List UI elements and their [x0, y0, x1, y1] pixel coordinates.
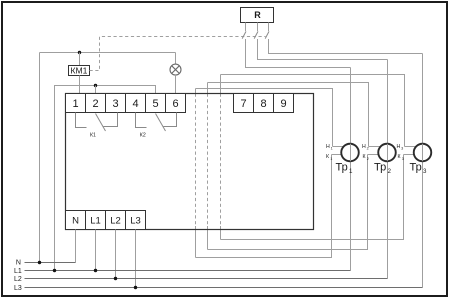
- wire W1: R pole 3 to CT3 primary: [269, 39, 423, 54]
- wire: H3 stub: [405, 146, 418, 148]
- wire: CT1 primary riser to L1 bus: [350, 68, 352, 271]
- wire: K2 stub: [368, 154, 382, 156]
- wire: return to CT1 K1: [196, 155, 332, 258]
- R pole 3 upper lead: [268, 23, 270, 32]
- bus L3: [25, 287, 423, 289]
- terminal block N L1 L2 L3: [66, 211, 146, 230]
- wire: KM1 top lead: [79, 53, 81, 66]
- svg-text:Н: Н: [397, 144, 401, 150]
- node: L3 terminal junction: [134, 286, 137, 289]
- wire: CT2 primary riser to L2 bus: [387, 60, 389, 279]
- svg-text:К: К: [398, 154, 401, 160]
- R pole 1 contact blade: [242, 31, 246, 38]
- svg-text:L2: L2: [14, 276, 22, 283]
- lamp HL: [170, 64, 181, 75]
- svg-text:N: N: [16, 260, 21, 267]
- meter enclosure: [66, 94, 314, 230]
- svg-text:1: 1: [331, 147, 333, 151]
- svg-text:3: 3: [112, 98, 118, 110]
- node: N riser junction: [38, 261, 41, 264]
- bus L1: [25, 270, 351, 272]
- svg-text:1: 1: [349, 168, 353, 175]
- svg-text:8: 8: [260, 98, 266, 110]
- current transformer Tp2: [362, 144, 396, 175]
- svg-text:L3: L3: [130, 216, 141, 227]
- svg-text:5: 5: [152, 98, 158, 110]
- wire: drop to terminal 2: [95, 86, 97, 94]
- node: KM1 tap junction: [78, 51, 81, 54]
- R pole 3 contact blade: [265, 31, 269, 38]
- wire: KM1 bottom lead to terminal 1: [79, 76, 81, 94]
- node: L1 riser junction: [53, 269, 56, 272]
- wire: return to CT3 K3: [221, 155, 404, 240]
- wire: terminal L3 drop: [135, 230, 137, 288]
- jumper K2: [136, 113, 177, 139]
- svg-text:Тр: Тр: [374, 162, 386, 174]
- svg-text:R: R: [254, 10, 261, 20]
- svg-text:Тр: Тр: [410, 162, 422, 174]
- wire: riser from N bus to control bus x=39.5: [39, 53, 41, 263]
- svg-text:9: 9: [280, 98, 286, 110]
- node: L2 terminal junction: [114, 277, 117, 280]
- wire: K3 stub: [404, 154, 418, 156]
- bus L2: [25, 278, 388, 280]
- svg-text:L2: L2: [110, 216, 121, 227]
- svg-text:К: К: [363, 154, 366, 160]
- svg-text:К: К: [326, 154, 329, 160]
- wire W5: meter internal lead 2 to CT2 H2: [208, 83, 369, 147]
- R pole 2 contact blade: [254, 31, 258, 38]
- svg-text:2: 2: [367, 157, 369, 161]
- wire: dashed meter internal path 3: [220, 75, 222, 240]
- wire: control bus y=52.5 from riser to lamp: [40, 52, 176, 54]
- svg-text:К2: К2: [140, 133, 146, 139]
- svg-text:4: 4: [132, 98, 138, 110]
- svg-text:1: 1: [330, 157, 332, 161]
- wire: K1 stub: [332, 154, 345, 156]
- wire W4: meter internal lead 3 to CT3 H3: [221, 75, 405, 147]
- wire: return to CT2 K2: [208, 155, 368, 250]
- wire: terminal N drop: [75, 230, 77, 263]
- R pole 1 upper lead: [245, 23, 247, 32]
- svg-text:1: 1: [72, 98, 78, 110]
- svg-text:Тр: Тр: [336, 162, 348, 174]
- wire: lamp HL bottom lead to terminal 6: [175, 75, 177, 94]
- bus N: [25, 262, 76, 264]
- terminal block 7-9: [234, 94, 294, 113]
- svg-text:7: 7: [240, 98, 246, 110]
- current transformer Tp3: [397, 144, 432, 175]
- wire W3: R pole 1 to CT1 primary: [246, 39, 351, 68]
- svg-text:КМ1: КМ1: [71, 66, 88, 76]
- wire: dashed meter internal path 1: [195, 89, 197, 258]
- svg-text:3: 3: [423, 168, 427, 175]
- current transformer Tp1: [326, 144, 359, 175]
- svg-text:2: 2: [367, 147, 369, 151]
- node: L1 terminal junction: [94, 269, 97, 272]
- wire: lamp HL top lead: [175, 53, 177, 65]
- wire: dashed control link KM1 to R contacts: [90, 37, 266, 71]
- svg-text:L3: L3: [14, 285, 22, 292]
- svg-text:L1: L1: [90, 216, 101, 227]
- terminal block 1-6: [66, 94, 186, 113]
- wire W2: R pole 2 to CT2 primary: [258, 39, 388, 60]
- svg-text:3: 3: [402, 157, 404, 161]
- svg-text:N: N: [72, 216, 79, 227]
- svg-text:Н: Н: [326, 144, 330, 150]
- svg-text:Н: Н: [362, 144, 366, 150]
- wire: H1 stub: [333, 146, 345, 148]
- R pole 2 upper lead: [257, 23, 259, 32]
- switch R: [241, 8, 274, 23]
- svg-text:L1: L1: [14, 268, 22, 275]
- wire: dashed meter internal path 2: [207, 83, 209, 250]
- svg-text:К1: К1: [90, 133, 96, 139]
- wire: terminal L1 drop: [95, 230, 97, 271]
- wire: CT3 primary riser to L3 bus: [422, 54, 424, 288]
- contactor coil KM1: [69, 66, 90, 76]
- node: terminal 2 tap: [94, 84, 97, 87]
- svg-text:2: 2: [92, 98, 98, 110]
- svg-text:3: 3: [401, 147, 403, 151]
- wire: terminal L2 drop: [115, 230, 117, 279]
- wire: riser from L1 bus to voltage taps x=54.5: [55, 86, 156, 271]
- svg-text:6: 6: [172, 98, 178, 110]
- svg-text:2: 2: [388, 168, 392, 175]
- wire: H2 stub: [369, 146, 382, 148]
- wire W6: meter internal lead 1 to CT1 H1: [196, 89, 333, 147]
- jumper K1: [76, 113, 118, 139]
